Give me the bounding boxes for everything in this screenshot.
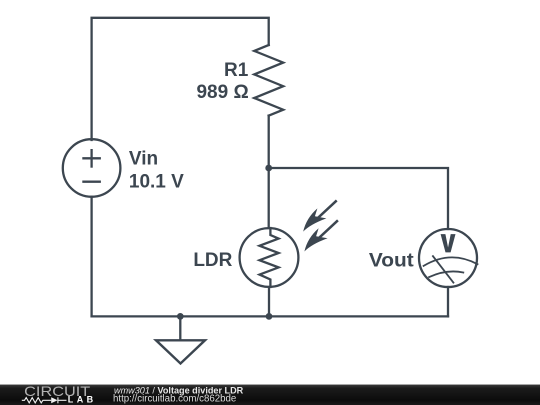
resistor R1 bbox=[254, 45, 283, 116]
wire node A to LDR top bbox=[268, 168, 270, 228]
wire R1 bottom to node A bbox=[268, 116, 270, 168]
voltmeter V mark bbox=[441, 234, 456, 252]
wire LDR bottom to node B bbox=[268, 287, 270, 316]
svg-text:10.1 V: 10.1 V bbox=[129, 171, 184, 192]
wire node A to voltmeter branch bbox=[269, 168, 448, 229]
svg-text:989 Ω: 989 Ω bbox=[196, 82, 248, 103]
node A junction dot bbox=[265, 165, 272, 172]
ground bbox=[156, 340, 205, 363]
wire ground stub bbox=[179, 316, 181, 340]
ground junction dot bbox=[177, 313, 184, 320]
svg-text:R1: R1 bbox=[224, 60, 249, 81]
voltmeter Vout bbox=[419, 229, 478, 287]
LDR light arrow 1 bbox=[303, 201, 336, 231]
svg-text:Vout: Vout bbox=[369, 250, 415, 271]
wire top-left from Vin top to R1 top bbox=[92, 18, 269, 140]
wire bottom rail bbox=[92, 315, 448, 317]
svg-text:http://circuitlab.com/c862bde: http://circuitlab.com/c862bde bbox=[113, 394, 236, 405]
svg-text:LDR: LDR bbox=[193, 250, 232, 271]
wire voltmeter bottom to bottom rail bbox=[447, 287, 449, 316]
wire Vin bottom to bottom rail bbox=[90, 197, 92, 317]
LDR light arrow 2 bbox=[304, 221, 337, 251]
CircuitLab logo schematic line (resistor + diode) bbox=[22, 397, 67, 403]
photoresistor LDR bbox=[240, 228, 299, 287]
node B junction dot (LDR bottom) bbox=[266, 313, 273, 320]
svg-text:LAB: LAB bbox=[68, 395, 97, 405]
voltage source Vin bbox=[63, 139, 121, 197]
svg-text:Vin: Vin bbox=[129, 148, 158, 169]
footer bar bbox=[0, 385, 540, 405]
